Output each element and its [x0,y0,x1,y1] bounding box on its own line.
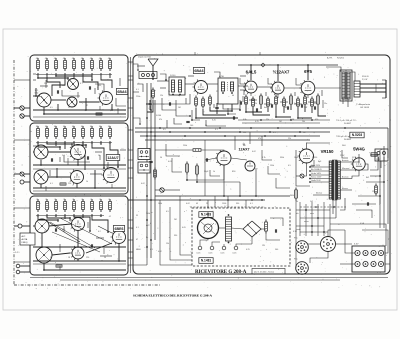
svg-text:AVC: AVC [146,224,150,227]
svg-text:0.1: 0.1 [215,129,218,131]
svg-text:Marrone: Marrone [342,168,349,170]
svg-text:0.1: 0.1 [250,203,253,205]
svg-text:rosso: rosso [304,220,309,223]
mid-left gap wires [128,75,133,77]
interconnect wires [128,61,133,63]
svg-text:3n: 3n [168,91,170,93]
svg-text:Giallo 110V: Giallo 110V [311,180,321,182]
svg-text:.02: .02 [108,216,111,218]
svg-text:47k: 47k [54,58,57,60]
svg-text:15k: 15k [44,157,47,159]
phono terminal 3 [222,246,226,250]
bottom right border wires [330,224,386,246]
svg-text:100: 100 [190,125,193,127]
svg-text:47k: 47k [108,58,111,60]
svg-text:6BA6: 6BA6 [194,69,203,73]
svg-text:15k: 15k [166,243,169,245]
IF transformer T1 [218,78,238,104]
svg-text:50: 50 [104,257,106,259]
terminal strip wiring [345,230,355,253]
svg-text:2M2: 2M2 [284,107,288,109]
box3 junction dots [57,219,59,221]
box3 label 6BE6 [113,226,124,232]
antenna trimmer C3 [148,102,151,104]
svg-text:2k: 2k [63,199,65,201]
junctions top row [250,64,252,66]
svg-text:220: 220 [68,183,71,185]
svg-text:A.TR.: A.TR. [327,57,333,60]
svg-text:FREQ: FREQ [22,242,28,244]
svg-text:330: 330 [98,85,101,87]
right edge cap C52 [366,202,368,205]
top mid maze wires [137,65,145,67]
svg-text:0.5: 0.5 [50,107,53,109]
svg-text:15n: 15n [324,103,327,105]
box3 cap C24 [54,228,56,231]
svg-text:Bianco: Bianco [342,188,348,190]
second bottom rail [60,279,340,281]
mains plug PL1 [375,149,388,161]
svg-text:47k: 47k [258,138,261,140]
svg-text:0.5M: 0.5M [290,119,295,121]
box3 resistor R31 [56,265,62,267]
svg-text:VR150: VR150 [321,149,334,154]
svg-text:12AU7: 12AU7 [107,156,118,160]
power transformer T3 [332,160,337,200]
svg-text:35: 35 [136,215,138,217]
main box left edge stubs [133,64,138,70]
heater cross wires [296,209,330,211]
transformer primary taps [310,166,329,168]
box2 wiring [38,141,60,150]
phono terminal 2 [210,246,214,250]
svg-text:SCHEMA ELETTRICO DEL RICEVITOR: SCHEMA ELETTRICO DEL RICEVITORE G 208-A [133,294,213,298]
svg-text:1500: 1500 [222,203,226,205]
tube V7 6AL5 [245,81,257,93]
svg-text:47n: 47n [274,103,277,105]
svg-text:10k: 10k [54,126,57,128]
detector wiring [246,107,262,113]
box3 mixer coil can L4 [35,219,49,233]
box1 trimmer arrows [41,96,47,104]
svg-text:47k: 47k [159,119,162,121]
svg-text:ALT.: ALT. [22,235,27,238]
output socket SK2 [321,237,336,252]
svg-text:2k: 2k [54,199,56,201]
svg-text:22k: 22k [288,138,291,140]
svg-text:N.4082: N.4082 [344,139,352,141]
box1 junction dots [37,77,39,79]
svg-text:2,5 W: 2,5 W [362,79,367,81]
tube V9 6V5 [301,81,315,95]
svg-text:6n8: 6n8 [264,107,267,109]
svg-text:50Ω: 50Ω [35,93,39,95]
phono box top link [207,200,209,208]
antenna [148,59,158,66]
svg-text:0.02: 0.02 [252,151,256,153]
svg-text:10: 10 [98,155,100,157]
svg-text:AUTA: AUTA [22,238,28,241]
svg-text:5W4G: 5W4G [353,147,365,152]
svg-text:47k: 47k [36,58,39,60]
svg-text:2M: 2M [174,219,177,221]
svg-text:220k: 220k [136,96,140,98]
svg-text:2x350: 2x350 [312,157,317,159]
svg-text:0.05: 0.05 [182,227,186,229]
svg-text:½12AX7: ½12AX7 [273,70,290,75]
box3 cap C25 [90,244,92,247]
svg-text:2k: 2k [99,199,101,201]
svg-text:12k: 12k [160,95,163,97]
svg-text:8k2: 8k2 [366,177,369,179]
svg-text:Bianco: Bianco [316,193,323,195]
svg-text:56k: 56k [304,107,307,109]
junctions mid-top [152,78,154,80]
svg-text:2k: 2k [90,199,92,201]
svg-text:(da G. 45.000 - Ticino): (da G. 45.000 - Ticino) [254,271,274,273]
svg-text:N.1481: N.1481 [201,259,212,263]
svg-text:150: 150 [244,103,247,105]
svg-text:1M: 1M [279,121,282,123]
top mid caps [168,102,170,105]
svg-text:82k: 82k [254,103,257,105]
long audio drop wires [204,140,206,196]
svg-text:½: ½ [243,143,246,147]
phono coil L7 [226,217,232,241]
svg-text:Nero 220V: Nero 220V [311,164,321,167]
svg-text:0.05: 0.05 [318,169,322,171]
box3 tube V4a [72,218,85,231]
svg-text:18: 18 [68,257,70,259]
svg-text:47k: 47k [72,58,75,60]
right edge resistor R51 [375,184,377,187]
RF unit box 3 [30,196,128,275]
svg-text:1k2: 1k2 [310,201,313,203]
rectifier top wiring [342,150,348,158]
box1 wiring [38,73,68,80]
box3 tube V5 6BE6 [113,231,126,244]
left margin pot P1 [20,106,24,110]
junction cluster bottom mid [199,199,201,201]
svg-text:Pos: Pos [294,238,297,240]
box3 label alta freq [20,233,35,245]
svg-text:0.25: 0.25 [246,249,250,251]
box3 oscillator can L5 [36,247,52,263]
svg-text:① Altoparlante: ① Altoparlante [356,103,371,106]
svg-text:22k: 22k [44,83,47,85]
phono extra cap [274,229,276,232]
svg-text:Dipolo 42-75Ω: Dipolo 42-75Ω [138,57,151,59]
box1 tube V1 6BA6 [100,92,113,105]
bus capacitor C10 [145,148,148,150]
svg-text:0.1: 0.1 [273,132,276,134]
svg-text:250k: 250k [183,145,187,147]
svg-text:GF 100/5: GF 100/5 [360,107,370,109]
svg-text:47k: 47k [63,58,66,60]
svg-text:330: 330 [174,235,177,237]
bus wires center [135,127,388,129]
svg-text:10k: 10k [45,126,48,128]
antenna terminal strip [139,72,157,79]
svg-text:820: 820 [232,171,235,173]
left margin terminal T1 [16,264,20,268]
bus resistor R30 [154,168,156,171]
output socket SK3 [296,262,309,275]
box1 resistor R28 [96,113,102,115]
svg-text:10k: 10k [72,126,75,128]
detector caps [239,101,241,104]
box1 trimmer C2 [67,97,77,107]
mid-top component cluster [195,96,197,99]
junction dots mid [223,195,225,197]
box2 IF can L3 [34,170,48,184]
box2 more wires [67,158,69,165]
svg-text:150k: 150k [270,165,274,167]
svg-text:470: 470 [315,119,318,121]
svg-text:500k: 500k [146,213,150,215]
svg-text:0.25: 0.25 [255,121,259,123]
svg-text:10k: 10k [90,126,93,128]
svg-text:nero: nero [310,212,314,215]
svg-text:6BE6: 6BE6 [136,249,141,251]
svg-text:50: 50 [160,157,162,159]
svg-text:0.02: 0.02 [158,251,162,253]
phono motor M1 [198,218,219,239]
box2 tube V3 12AU7 [104,168,119,183]
box2 IF can L2 [34,145,48,159]
bus junctions [146,103,148,105]
bus component box B1 [138,149,150,160]
svg-text:Arancio: Arancio [341,176,348,179]
svg-text:2k: 2k [81,199,83,201]
svg-text:27k: 27k [266,119,269,121]
svg-text:47k: 47k [90,58,93,60]
svg-text:0.02: 0.02 [141,183,145,185]
svg-text:10k: 10k [99,126,102,128]
box2 trimmer arrows [38,148,44,156]
svg-text:2k: 2k [108,199,110,201]
svg-text:2.2: 2.2 [62,155,65,157]
speaker LS [354,81,360,97]
svg-text:10k: 10k [63,126,66,128]
label 6BA6 top [193,68,204,74]
phono terminal 4 [234,246,238,250]
svg-text:120: 120 [372,191,375,193]
svg-text:1k: 1k [213,171,215,173]
box2 tube V2b [71,171,84,184]
svg-text:N.5201: N.5201 [337,58,345,60]
transformer secondary taps [341,161,353,163]
svg-text:N.5203: N.5203 [352,133,363,137]
svg-text:1M: 1M [303,132,306,134]
aerial coil L6 [169,77,185,95]
phono terminal 1 [198,246,202,250]
svg-text:0.5: 0.5 [288,165,291,167]
box2 resistor row R10-R18 [37,126,39,129]
label N.5203 box [350,132,364,138]
svg-text:Rosso 125V: Rosso 125V [311,177,322,179]
svg-text:1n5: 1n5 [294,103,297,105]
svg-text:N.160: N.160 [156,115,161,117]
detector components [245,95,247,98]
RF unit box 2 [30,123,128,194]
tube V8 12AX7a [272,82,284,94]
label N.1481 [199,258,213,264]
box3 comb wire [36,215,104,217]
svg-text:6.8k: 6.8k [243,119,247,121]
label N.1483 [199,212,213,218]
left margin pot P2 [20,114,24,118]
svg-text:220: 220 [86,257,89,259]
left margin extra wires [14,79,30,81]
scan speckle noise [14,52,393,289]
phono wiring [200,239,208,247]
svg-text:6V5: 6V5 [304,69,312,74]
svg-text:9500 Ω: 9500 Ω [362,76,369,78]
svg-text:8p: 8p [178,95,180,97]
rectifier wiring [352,170,359,178]
socket wiring [308,243,320,245]
audio bus vertical wires [146,83,148,258]
box2 extra wires [95,151,102,153]
left margin pot P3 [18,224,22,228]
left margin switch S1 [20,172,24,176]
box1 extra wires [40,85,48,87]
svg-text:4.7: 4.7 [80,83,83,85]
box1 more wires [45,80,47,88]
svg-text:verde: verde [296,228,301,231]
svg-text:47: 47 [86,105,88,107]
svg-text:47: 47 [136,239,138,241]
svg-text:12AX7: 12AX7 [239,148,250,152]
mid section wiring [155,195,290,197]
half tube V10b [245,161,255,171]
output transformer T2 [340,70,352,101]
main chassis box [133,55,390,274]
svg-text:0.01: 0.01 [168,161,172,163]
svg-text:5k: 5k [296,201,298,203]
left margin terminal T2 [16,270,20,274]
svg-text:47k: 47k [81,58,84,60]
box2 tube V2a [71,145,86,160]
svg-text:1k: 1k [86,181,88,183]
output socket SK1 [296,241,309,254]
svg-text:3.2k: 3.2k [212,120,216,122]
svg-text:4.7k: 4.7k [262,157,266,159]
svg-text:6BE6: 6BE6 [115,227,124,231]
svg-text:0.2: 0.2 [98,231,101,233]
tube V10 12AX7b [217,151,231,165]
svg-text:10k: 10k [36,126,39,128]
svg-text:40: 40 [232,95,234,97]
fuse F1 [371,153,377,156]
box3 more wires [63,226,65,232]
svg-text:120: 120 [243,132,246,134]
svg-text:6BA6: 6BA6 [117,90,126,94]
RF unit box 1 [30,55,128,121]
svg-text:390: 390 [236,203,239,205]
svg-text:N.4087: N.4087 [344,123,352,125]
box1 trimmer C1 [68,79,79,90]
RF tube V6 6BA6 [195,81,208,94]
ricevitore note box [252,269,285,275]
svg-text:33k: 33k [44,231,47,233]
IF output wiring [207,83,218,85]
svg-text:10k: 10k [108,126,111,128]
svg-text:N.160: N.160 [170,75,176,77]
svg-text:②0.1 μF+150 μF 7V~: ②0.1 μF+150 μF 7V~ [336,119,358,122]
svg-text:7k5: 7k5 [80,229,83,231]
svg-text:6.3: 6.3 [150,249,153,251]
heater extra cross [300,231,328,233]
svg-text:0.5: 0.5 [163,129,166,131]
svg-text:10k: 10k [302,121,305,123]
inner edge line [130,57,132,273]
svg-text:100: 100 [62,85,65,87]
svg-text:0.1: 0.1 [136,89,139,91]
volume pot VP [160,188,164,192]
box3 wiring [38,214,58,222]
svg-text:2k: 2k [45,199,47,201]
bus junction dots [159,127,161,129]
box2 junction dots [59,146,61,148]
svg-text:5p: 5p [50,257,52,259]
svg-text:25: 25 [216,91,218,93]
svg-text:330: 330 [314,103,317,105]
bottom rail wires [30,277,388,279]
svg-text:0.5: 0.5 [166,211,169,213]
svg-text:270V: 270V [340,155,345,157]
svg-text:2k: 2k [72,199,74,201]
box1 resistor row R1-R9 [37,58,39,61]
svg-text:470: 470 [62,229,65,231]
box2 label 12AU7 [106,155,120,161]
tube V11 VR150 [300,149,314,163]
power resistor R50 [295,188,297,191]
phono resistor R40 [265,220,267,223]
mains switch SW [300,174,304,178]
svg-text:330k: 330k [280,157,284,159]
box1 oscillator coil can L1 [37,93,51,107]
svg-text:0.1: 0.1 [136,227,139,229]
selenium rectifier B1 [243,221,261,237]
bus capacitor C11 [149,160,152,162]
box3 resistor row R19-R26 [37,199,39,202]
dashed heater feed wire [300,206,346,208]
svg-text:47k: 47k [45,58,48,60]
svg-text:N.1483: N.1483 [201,213,212,217]
svg-text:0.1: 0.1 [50,183,53,185]
terminal strip TS1 [352,246,385,272]
svg-text:0.02: 0.02 [186,203,190,205]
svg-text:Arancio: Arancio [341,159,348,162]
coupling network [186,162,188,165]
bus component box B2 [138,162,150,173]
svg-text:RICEVITORE G 208-A: RICEVITORE G 208-A [195,270,247,275]
chassis boundary dash line left [13,60,15,285]
B+ rail top [238,64,338,66]
chassis boundary dash line bottom [14,284,160,286]
svg-text:2k: 2k [36,199,38,201]
box3 tube V4b [72,247,84,259]
box2 resistor R29 [60,183,66,185]
svg-text:6.3V: 6.3V [354,244,359,246]
phono unit dashed box [192,208,290,266]
svg-text:6AL5: 6AL5 [246,70,257,75]
svg-text:10k: 10k [81,126,84,128]
left margin wires [14,107,20,109]
box3 extra wires [96,237,104,239]
